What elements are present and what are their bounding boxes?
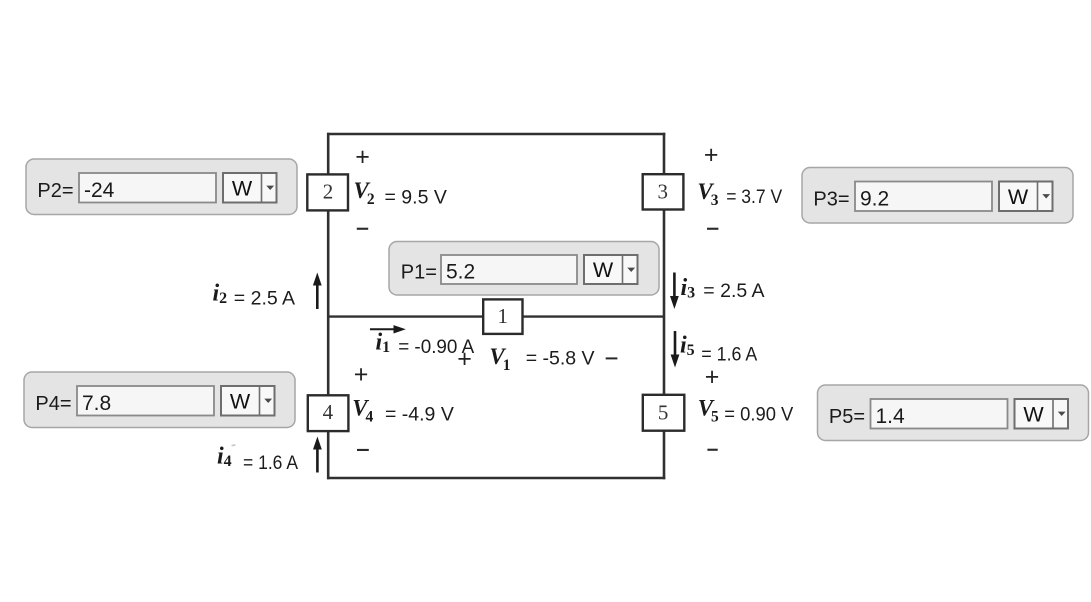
svg-text:W: W: [1023, 403, 1044, 427]
arrow i1 (right): [370, 325, 406, 333]
input group P2: [26, 159, 297, 215]
minus sign V2: [357, 228, 368, 230]
svg-text:-24: -24: [84, 179, 115, 202]
wire middle: [328, 315, 664, 317]
svg-text:i3: i3: [681, 275, 696, 302]
svg-text:= -5.8 V: = -5.8 V: [526, 348, 595, 370]
svg-text:= -4.9 V: = -4.9 V: [385, 404, 454, 426]
svg-text:W: W: [593, 258, 614, 282]
minus sign V4: [357, 449, 369, 451]
svg-text:V1: V1: [489, 344, 510, 374]
svg-text:i5: i5: [680, 333, 695, 360]
svg-text:i4: i4: [217, 444, 232, 471]
svg-text:W: W: [232, 177, 253, 201]
svg-text:W: W: [230, 390, 251, 414]
svg-text:V3: V3: [697, 179, 718, 209]
svg-text:P4=: P4=: [35, 393, 71, 415]
svg-text:4: 4: [323, 400, 334, 424]
svg-text:+: +: [705, 363, 720, 391]
stray faint mark near i4: [231, 444, 235, 446]
svg-text:5: 5: [658, 401, 669, 425]
wire top: [327, 133, 665, 136]
svg-text:+: +: [354, 360, 369, 388]
svg-text:2: 2: [323, 179, 334, 203]
svg-text:P2=: P2=: [37, 180, 73, 202]
svg-text:W: W: [1008, 185, 1029, 209]
svg-text:= 9.5 V: = 9.5 V: [385, 187, 447, 209]
svg-text:V4: V4: [352, 396, 373, 426]
input group P3: [802, 168, 1073, 224]
element box 5: [643, 395, 685, 431]
svg-text:= 3.7 V: = 3.7 V: [726, 186, 782, 208]
svg-text:1.4: 1.4: [876, 405, 906, 428]
wire right: [663, 133, 666, 480]
svg-text:= 2.5 A: = 2.5 A: [703, 280, 764, 302]
arrow i3 (down): [670, 273, 679, 310]
svg-text:= 0.90 V: = 0.90 V: [724, 404, 793, 426]
input group P1: [389, 242, 659, 296]
svg-text:i2: i2: [213, 281, 228, 308]
svg-text:P5=: P5=: [829, 406, 865, 428]
minus sign V1: [606, 357, 618, 359]
svg-text:V2: V2: [354, 178, 375, 208]
svg-text:= 2.5 A: = 2.5 A: [234, 288, 295, 310]
minus sign V5: [707, 449, 717, 451]
svg-text:P1=: P1=: [401, 262, 437, 284]
svg-text:P3=: P3=: [813, 189, 849, 211]
element box 3: [643, 174, 684, 209]
svg-text:= 1.6 A: = 1.6 A: [243, 452, 298, 474]
svg-text:3: 3: [658, 179, 669, 203]
arrow i2 (up): [313, 273, 322, 310]
svg-text:1: 1: [497, 304, 508, 328]
arrow i4 (up): [313, 437, 322, 473]
element box 2: [307, 174, 348, 210]
element box 1: [483, 299, 522, 334]
svg-text:V5: V5: [698, 396, 719, 426]
wire left: [327, 133, 330, 480]
svg-text:+: +: [704, 141, 719, 169]
element box 4: [308, 395, 349, 431]
wire bottom: [327, 477, 665, 480]
svg-text:9.2: 9.2: [860, 188, 889, 211]
svg-text:i1: i1: [376, 330, 391, 357]
input group P4: [24, 372, 295, 428]
arrow i5 (down): [671, 331, 680, 368]
svg-text:+: +: [355, 143, 370, 171]
minus sign V3: [707, 228, 718, 230]
svg-text:= -0.90 A: = -0.90 A: [398, 336, 474, 358]
svg-text:7.8: 7.8: [82, 392, 111, 415]
input group P5: [818, 385, 1089, 441]
svg-text:5.2: 5.2: [446, 261, 475, 284]
svg-text:= 1.6 A: = 1.6 A: [701, 344, 757, 366]
